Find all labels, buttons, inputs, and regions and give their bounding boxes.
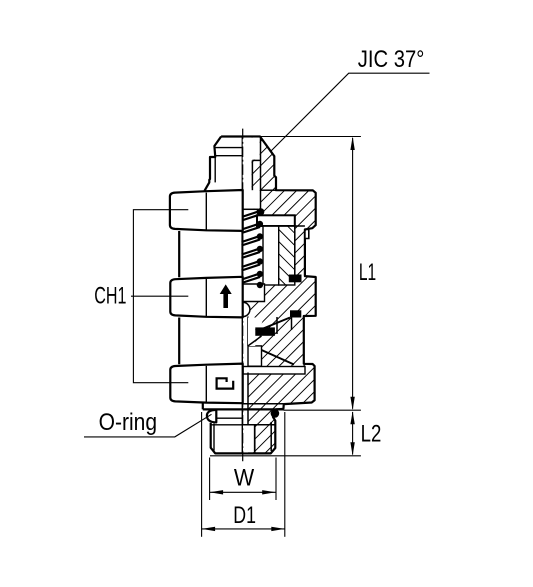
svg-text:L1: L1	[359, 259, 376, 286]
svg-text:D1: D1	[233, 502, 256, 529]
svg-text:CH1: CH1	[94, 282, 126, 309]
svg-text:O-ring: O-ring	[99, 409, 158, 436]
svg-text:W: W	[234, 465, 255, 492]
svg-text:JIC 37°: JIC 37°	[358, 46, 425, 73]
svg-text:L2: L2	[361, 420, 382, 447]
